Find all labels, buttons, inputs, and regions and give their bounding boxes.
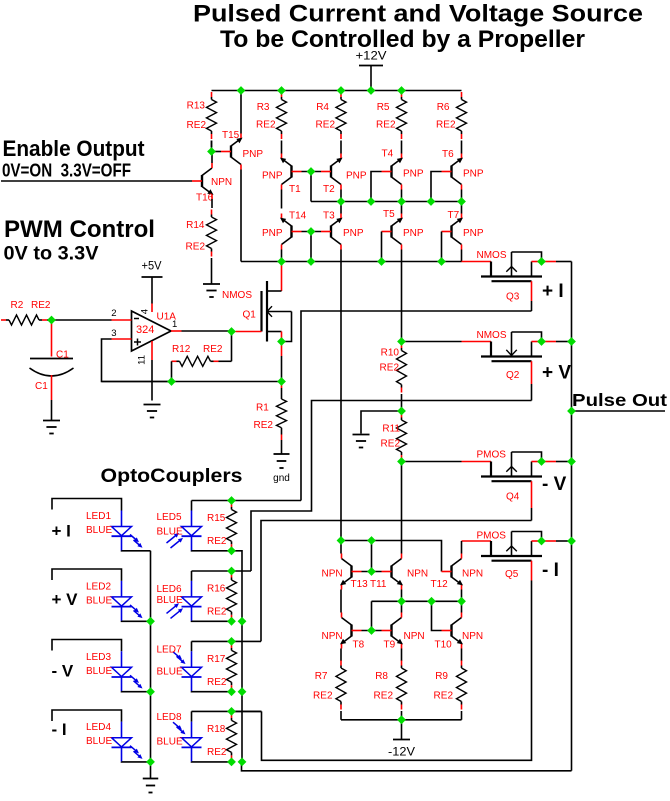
- LED3: [112, 651, 143, 691]
- svg-text:LED3: LED3: [86, 652, 111, 663]
- svg-text:LED5: LED5: [157, 512, 182, 523]
- label Q3 +I: [542, 281, 564, 302]
- svg-text:- I: - I: [52, 720, 67, 739]
- label gnd: [273, 473, 290, 484]
- label LED8 BLUE: [157, 737, 183, 748]
- svg-text:+ I: + I: [542, 281, 564, 302]
- svg-text:2: 2: [111, 308, 116, 319]
- wire -12V rail: [341, 719, 462, 721]
- label pin4: [140, 309, 151, 314]
- transistor T4: [382, 154, 404, 190]
- label R5: [377, 102, 390, 113]
- op-amp minus: [134, 318, 139, 320]
- label R14 RE2: [186, 242, 206, 253]
- svg-text:1: 1: [172, 319, 177, 330]
- label R18 RE2: [207, 747, 227, 758]
- label +5V: [142, 260, 162, 272]
- resistor R6: [457, 92, 467, 154]
- svg-text:NPN: NPN: [407, 569, 428, 580]
- wire T4 base loop: [371, 172, 382, 202]
- label R12 RE2: [203, 344, 223, 355]
- label R2 RE2: [31, 300, 51, 311]
- svg-text:RE2: RE2: [207, 607, 227, 618]
- transistor T1: [280, 154, 302, 190]
- label Pulse Out: [572, 390, 667, 410]
- label R8 RE2: [374, 691, 394, 702]
- label R7: [315, 671, 328, 682]
- resistor R17: [227, 643, 237, 690]
- label R1: [256, 402, 269, 413]
- wire LED6 feed: [192, 570, 252, 572]
- svg-text:BLUE: BLUE: [86, 666, 112, 677]
- wire R13 to node: [211, 141, 213, 152]
- label Q4 PMOS: [477, 450, 507, 461]
- svg-text:BLUE: BLUE: [157, 527, 183, 538]
- label + V channel: [52, 590, 79, 609]
- +12V label: [356, 49, 387, 63]
- transistor T5: [382, 214, 404, 250]
- label pin11: [137, 355, 148, 365]
- label T15 PNP: [243, 149, 264, 160]
- label T1 PNP: [262, 171, 283, 182]
- svg-text:NPN: NPN: [404, 631, 425, 642]
- label R11 RE2: [381, 439, 401, 450]
- svg-text:R17: R17: [207, 654, 226, 665]
- mosfet Q1 NMOS: [262, 281, 292, 342]
- wire mirror rail: [341, 541, 442, 572]
- svg-text:RE2: RE2: [316, 120, 336, 131]
- svg-text:R1: R1: [256, 402, 269, 413]
- op-amp pin3: [112, 338, 132, 340]
- svg-text:T4: T4: [382, 149, 394, 160]
- mosfet Q5 PMOS: [481, 532, 542, 561]
- ground R14: [203, 284, 220, 297]
- resistor R5: [397, 92, 407, 154]
- svg-text:RE2: RE2: [31, 300, 51, 311]
- svg-text:Enable Output: Enable Output: [3, 136, 146, 161]
- wire Q2 drain: [531, 361, 533, 400]
- svg-text:4: 4: [140, 309, 151, 314]
- label pin3: [111, 328, 116, 339]
- wire pin11 down: [151, 360, 153, 401]
- ground LED chain: [143, 779, 159, 793]
- label T9: [384, 640, 396, 651]
- resistor R12: [172, 356, 232, 366]
- wire bus1: [311, 201, 462, 203]
- svg-text:Pulsed Current and Voltage Sou: Pulsed Current and Voltage Source: [193, 1, 643, 28]
- label Q4 -V: [542, 474, 567, 495]
- wire LED6 anode: [191, 571, 193, 581]
- svg-text:LED7: LED7: [157, 645, 182, 656]
- label LED1: [86, 511, 111, 522]
- label 0V to 3.3V: [4, 244, 99, 265]
- transistor T2: [321, 154, 343, 190]
- label T3 PNP: [343, 228, 364, 239]
- wire LED1 cathode: [122, 550, 151, 552]
- title line 2: [220, 26, 585, 53]
- svg-text:PMOS: PMOS: [477, 450, 507, 461]
- wire pin3 loop: [102, 339, 172, 382]
- label T4: [382, 149, 394, 160]
- svg-text:RE2: RE2: [376, 120, 396, 131]
- wire op-amp out: [182, 330, 232, 332]
- svg-text:- I: - I: [542, 560, 559, 581]
- wire T15 emitter to rail: [240, 91, 242, 134]
- title line 1: [193, 1, 643, 28]
- label T8 NPN: [322, 631, 343, 642]
- wire bus2: [241, 261, 462, 263]
- transistor T15: [221, 134, 243, 170]
- svg-text:PWM Control: PWM Control: [4, 216, 155, 243]
- label Q1 NMOS: [222, 290, 252, 301]
- transistor T16 NPN: [192, 163, 214, 199]
- resistor R9: [457, 661, 467, 720]
- wire LED7 anode: [191, 641, 193, 651]
- LED2: [112, 581, 143, 621]
- wire Q1 gate: [236, 331, 262, 333]
- wire LED6 cathode: [192, 620, 232, 622]
- wire LED8 anode: [191, 711, 193, 721]
- label T5: [383, 209, 395, 220]
- svg-text:T16: T16: [196, 193, 214, 204]
- svg-text:NPN: NPN: [462, 631, 483, 642]
- wire T12 emitter: [461, 590, 463, 602]
- ground pin11: [144, 405, 161, 418]
- svg-text:PNP: PNP: [243, 149, 264, 160]
- svg-text:T2: T2: [323, 184, 335, 195]
- ground R11: [353, 435, 370, 448]
- wire T emitter to R7: [340, 649, 342, 662]
- resistor R11: [397, 413, 407, 461]
- label R15: [207, 513, 226, 524]
- label T10: [435, 640, 453, 651]
- svg-text:T6: T6: [442, 149, 454, 160]
- svg-text:RE2: RE2: [203, 344, 223, 355]
- svg-text:R9: R9: [435, 671, 448, 682]
- label T2: [323, 184, 335, 195]
- wire T15 base: [212, 151, 222, 153]
- wire T6 collector to bus1: [461, 190, 463, 202]
- svg-text:- V: - V: [542, 474, 567, 495]
- svg-text:R6: R6: [437, 102, 450, 113]
- label PWM Control: [4, 216, 155, 243]
- svg-text:T13: T13: [351, 579, 369, 590]
- wire LED chain to gnd: [150, 762, 152, 778]
- wire bases to bus1: [310, 172, 312, 202]
- wire T8 base link: [362, 630, 382, 632]
- svg-text:Q3: Q3: [506, 292, 520, 303]
- label T6: [442, 149, 454, 160]
- wire Q2 source to pulse: [542, 341, 572, 343]
- wire LED8 cathode: [192, 761, 232, 763]
- label LED1 BLUE: [86, 525, 112, 536]
- LED5: [167, 511, 202, 551]
- svg-text:T3: T3: [323, 211, 335, 222]
- label R10: [381, 348, 400, 359]
- svg-text:0V to 3.3V: 0V to 3.3V: [4, 244, 99, 265]
- wire R12 left down: [171, 361, 173, 381]
- wire Q3 drain: [531, 281, 533, 311]
- op-amp pin2: [112, 319, 132, 321]
- wire T10 collector: [461, 601, 463, 612]
- wire LED chain: [150, 551, 152, 762]
- svg-text:NMOS: NMOS: [477, 250, 507, 261]
- label LED6 BLUE: [157, 595, 183, 606]
- svg-text:BLUE: BLUE: [157, 737, 183, 748]
- wire T9 collector: [401, 601, 403, 612]
- wire T2 collector to bus1: [340, 190, 342, 202]
- wire LED5 cathode: [192, 550, 232, 552]
- label Q4: [506, 492, 520, 503]
- svg-text:R16: R16: [207, 584, 226, 595]
- wire T5 emitter to bus1: [401, 202, 403, 214]
- LED4: [112, 722, 143, 762]
- svg-text:Pulse Out: Pulse Out: [572, 390, 667, 410]
- label R13: [187, 101, 206, 112]
- label LED3 BLUE: [86, 666, 112, 677]
- wire pulse out stub: [572, 410, 666, 412]
- svg-text:C1: C1: [35, 381, 48, 392]
- op-amp U1A pin4: [151, 304, 153, 313]
- svg-text:RE2: RE2: [434, 691, 454, 702]
- svg-text:+5V: +5V: [142, 260, 162, 272]
- label T15: [222, 130, 240, 141]
- svg-text:0V=ON 3.3V=OFF: 0V=ON 3.3V=OFF: [2, 160, 131, 180]
- svg-text:R14: R14: [186, 220, 205, 231]
- label R14: [186, 220, 205, 231]
- svg-text:NPN: NPN: [322, 631, 343, 642]
- resistor R15: [227, 502, 237, 549]
- resistor R18: [227, 713, 237, 761]
- svg-text:Q2: Q2: [506, 370, 520, 381]
- transistor T13: [340, 554, 362, 590]
- svg-text:PNP: PNP: [403, 228, 424, 239]
- mosfet Q4 PMOS: [481, 452, 542, 481]
- wire - V input: [52, 640, 122, 652]
- svg-text:PNP: PNP: [463, 228, 484, 239]
- svg-text:LED6: LED6: [157, 584, 182, 595]
- wire feedback row: [102, 381, 282, 383]
- svg-text:T5: T5: [383, 209, 395, 220]
- wire LED2 cathode: [122, 620, 151, 622]
- svg-text:T14: T14: [289, 211, 307, 222]
- svg-text:RE2: RE2: [186, 242, 206, 253]
- svg-text:BLUE: BLUE: [86, 525, 112, 536]
- wire T12 collector up: [461, 541, 463, 554]
- svg-text:R11: R11: [382, 424, 400, 435]
- wire +12V rail: [212, 90, 462, 92]
- wire Q1 drain: [281, 262, 283, 292]
- wire T7 base loop: [441, 232, 443, 262]
- label LED7 BLUE: [157, 667, 183, 678]
- wire Q2 drain run: [251, 401, 532, 572]
- wire T7 emitter to bus1: [461, 202, 463, 214]
- transistor T14: [280, 214, 302, 250]
- wire T14 T3 base node: [302, 231, 322, 233]
- wire T15 collector down: [240, 170, 242, 262]
- svg-text:NMOS: NMOS: [477, 330, 507, 341]
- svg-text:PNP: PNP: [463, 169, 484, 180]
- op-amp pin11: [151, 341, 153, 360]
- label R6: [437, 102, 450, 113]
- resistor R4: [336, 92, 346, 154]
- svg-text:PNP: PNP: [262, 171, 283, 182]
- label Q2 NMOS: [477, 330, 507, 341]
- svg-text:T8: T8: [353, 640, 365, 651]
- wire R2 to pin2: [52, 319, 112, 321]
- wire T4 collector to bus1: [401, 190, 403, 202]
- label U1A: [157, 312, 177, 323]
- svg-text:R3: R3: [257, 102, 270, 113]
- wire Q3 drain run: [301, 311, 532, 501]
- label Q5: [505, 569, 519, 580]
- resistor R2: [1, 315, 52, 325]
- wire Q3 source to pulse: [542, 261, 572, 263]
- label 0V=ON 3.3V=OFF: [2, 160, 131, 180]
- +12V symbol: [359, 66, 383, 91]
- wire Q5 drain run: [262, 591, 532, 760]
- label pin1: [172, 319, 177, 330]
- wire LED4 cathode: [122, 761, 151, 763]
- wire T1 T2 base node: [302, 171, 322, 173]
- wire T13 T11 base up: [371, 541, 373, 572]
- svg-text:To be Controlled by a Propelle: To be Controlled by a Propeller: [220, 26, 585, 53]
- label - V channel: [52, 662, 74, 681]
- svg-text:NMOS: NMOS: [222, 290, 252, 301]
- wire LED7 cathode: [192, 690, 232, 692]
- label T12 NPN: [462, 569, 483, 580]
- label R8: [375, 671, 388, 682]
- label T14 PNP: [262, 228, 283, 239]
- svg-text:11: 11: [137, 355, 148, 365]
- svg-text:RE2: RE2: [380, 363, 400, 374]
- transistor T11: [382, 554, 404, 590]
- wire Q1 source down: [281, 342, 283, 382]
- resistor R7: [336, 661, 346, 720]
- label T4 PNP: [403, 169, 424, 180]
- label R16: [207, 584, 226, 595]
- transistor T8: [340, 613, 362, 649]
- ground C1: [43, 421, 60, 434]
- svg-text:RE2: RE2: [436, 120, 456, 131]
- svg-text:RE2: RE2: [374, 691, 394, 702]
- svg-text:OptoCouplers: OptoCouplers: [101, 465, 243, 487]
- svg-text:LED1: LED1: [86, 511, 111, 522]
- mosfet Q3 NMOS: [481, 252, 542, 281]
- svg-text:T7: T7: [448, 210, 460, 221]
- label T7: [448, 210, 460, 221]
- wire Q5 source to pulse: [542, 540, 572, 542]
- svg-text:BLUE: BLUE: [157, 667, 183, 678]
- wire R15 bottom link: [232, 551, 243, 622]
- svg-text:R15: R15: [207, 513, 226, 524]
- wire Q4 drain run: [261, 521, 532, 642]
- label LED3: [86, 652, 111, 663]
- svg-text:RE2: RE2: [207, 536, 227, 547]
- wire T6 base loop: [431, 172, 442, 202]
- svg-text:RE2: RE2: [187, 120, 207, 131]
- wire Q5 gate: [462, 540, 492, 542]
- LED7: [173, 651, 202, 691]
- svg-text:BLUE: BLUE: [86, 595, 112, 606]
- label LED4 BLUE: [86, 736, 112, 747]
- label - I channel: [52, 720, 67, 739]
- svg-text:R8: R8: [375, 671, 388, 682]
- wire mirror rail2: [372, 601, 462, 630]
- label OptoCouplers: [101, 465, 243, 487]
- label LED8: [157, 712, 182, 723]
- svg-text:PNP: PNP: [346, 171, 367, 182]
- wire T13 emitter down: [340, 590, 342, 613]
- label R12: [172, 344, 191, 355]
- op-amp pin1: [171, 330, 182, 332]
- wire Q2 gate: [403, 341, 491, 343]
- wire LED5 feed: [192, 500, 302, 502]
- label T13: [351, 579, 369, 590]
- svg-text:gnd: gnd: [273, 473, 290, 484]
- wire T13 collector: [340, 541, 342, 554]
- transistor T6: [442, 154, 464, 190]
- label R2: [11, 300, 24, 311]
- wire T13 base link: [362, 571, 382, 573]
- svg-text:R5: R5: [377, 102, 390, 113]
- svg-text:PNP: PNP: [343, 228, 364, 239]
- svg-text:R7: R7: [315, 671, 328, 682]
- label R17: [207, 654, 226, 665]
- svg-text:R2: R2: [11, 300, 24, 311]
- svg-text:PNP: PNP: [403, 169, 424, 180]
- label R3 RE2: [256, 120, 276, 131]
- capacitor C1: [30, 359, 74, 377]
- wire T7 collector to gate node: [461, 250, 463, 262]
- label Q2: [506, 370, 520, 381]
- op-amp plus: [134, 339, 141, 346]
- label 324: [136, 324, 154, 336]
- wire out node down: [231, 332, 233, 362]
- svg-text:BLUE: BLUE: [157, 595, 183, 606]
- svg-text:BLUE: BLUE: [86, 736, 112, 747]
- svg-text:R12: R12: [172, 344, 191, 355]
- wire T3 collector long: [340, 250, 342, 541]
- resistor R13: [207, 92, 217, 147]
- label R17 RE2: [207, 677, 227, 688]
- label T3: [323, 211, 335, 222]
- svg-text:- V: - V: [52, 662, 74, 681]
- resistor R8: [397, 661, 407, 720]
- label R15 RE2: [207, 536, 227, 547]
- wire T14 collector to bus2: [281, 250, 283, 262]
- svg-text:Q4: Q4: [506, 492, 520, 503]
- resistor R14: [207, 199, 217, 284]
- svg-text:NPN: NPN: [462, 569, 483, 580]
- label Q5 -I: [542, 560, 559, 581]
- label R5 RE2: [376, 120, 396, 131]
- label + I channel: [52, 522, 71, 541]
- svg-text:-12V: -12V: [388, 745, 415, 759]
- svg-text:RE2: RE2: [207, 677, 227, 688]
- svg-text:3: 3: [111, 328, 116, 339]
- wire Q4 gate: [403, 461, 491, 463]
- power +5V: [142, 277, 163, 304]
- label R18: [207, 724, 226, 735]
- op-amp U1A: [132, 311, 172, 351]
- svg-text:R13: R13: [187, 101, 206, 112]
- svg-text:RE2: RE2: [207, 747, 227, 758]
- label LED6: [157, 584, 182, 595]
- wire R18 feed link: [232, 710, 262, 712]
- label R13 RE2: [187, 120, 207, 131]
- label T8: [353, 640, 365, 651]
